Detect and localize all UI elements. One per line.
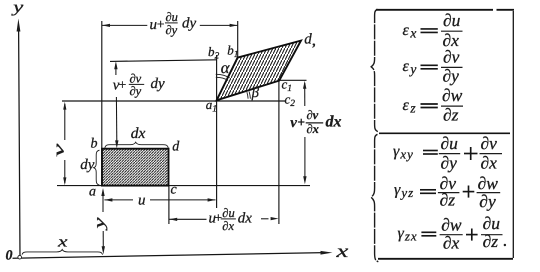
svg-text:∂y: ∂y <box>441 153 458 173</box>
svg-text:εy: εy <box>403 58 417 77</box>
svg-text:∂v: ∂v <box>443 46 460 66</box>
svg-text:a: a <box>89 185 96 200</box>
wire V6 vertical below c <box>168 186 170 224</box>
svg-text:∂w: ∂w <box>441 214 462 234</box>
equation gamma_xy <box>393 133 502 173</box>
svg-text:∂w: ∂w <box>442 85 463 105</box>
svg-text:x: x <box>335 242 349 262</box>
svg-text:∂y: ∂y <box>166 23 178 37</box>
y axis arrowhead <box>17 19 21 32</box>
wire V3 vertical through a1,b2 <box>216 55 218 208</box>
equation eps_x <box>403 10 463 50</box>
equation gamma_yz <box>394 173 500 211</box>
origin circle <box>18 255 22 259</box>
svg-text:β: β <box>251 85 260 101</box>
angle alpha arc <box>216 74 230 80</box>
svg-text:γxy: γxy <box>393 143 414 162</box>
svg-text:α: α <box>221 58 230 77</box>
equation gamma_zx <box>398 213 508 253</box>
svg-text:dy: dy <box>182 16 197 32</box>
brace dy (left of rectangle) <box>94 150 100 185</box>
svg-text:∂v: ∂v <box>481 133 498 153</box>
wire V4 vertical through c1,c2 <box>278 80 280 224</box>
svg-text:.: . <box>503 234 507 250</box>
svg-text:dy: dy <box>151 76 166 92</box>
svg-text:γzx: γzx <box>398 225 418 244</box>
brace dx (above rectangle) <box>105 142 169 148</box>
svg-text:∂x: ∂x <box>222 219 234 233</box>
svg-text:d,: d, <box>304 32 316 49</box>
wire H2 horizontal through a1 <box>62 100 285 102</box>
svg-text:∂x: ∂x <box>481 153 498 173</box>
svg-text:∂u: ∂u <box>483 213 501 233</box>
svg-text:b: b <box>91 137 98 152</box>
svg-text:εz: εz <box>403 97 417 116</box>
svg-text:∂v: ∂v <box>307 108 319 122</box>
wire V5 vertical through b1 <box>237 21 239 58</box>
panel right border <box>512 11 514 258</box>
svg-text:c: c <box>171 183 178 198</box>
parallelogram a1 b1 d1 c1 hatched <box>217 41 301 101</box>
svg-text:+: + <box>118 77 127 92</box>
svg-text:∂y: ∂y <box>479 191 496 211</box>
equation eps_y <box>403 46 463 85</box>
dimension u+du/dx dx (y=219) <box>169 218 268 221</box>
label u+du/dy dy <box>150 10 197 37</box>
angle beta arc <box>247 92 251 99</box>
svg-text:∂u: ∂u <box>222 206 234 220</box>
brace left top group <box>371 9 378 131</box>
equation eps_z <box>403 85 464 125</box>
wire H3 horizontal through a,c <box>57 185 310 187</box>
dimension v (vertical, x=64.8) <box>64 104 66 183</box>
panel top border <box>376 9 493 11</box>
svg-text:∂z: ∂z <box>443 105 459 125</box>
dimension D2 v+dv/dy dy (vertical, x=116) <box>115 64 118 141</box>
svg-text:y: y <box>10 0 24 16</box>
dimension v+dv/dx dx (vertical x=305) <box>304 83 306 181</box>
svg-text:dx: dx <box>238 211 253 227</box>
wire H4 short line at c1 <box>279 79 307 81</box>
svg-text:∂u: ∂u <box>443 10 461 30</box>
label v+dv/dy dy <box>113 71 165 98</box>
rectangle abcd hatched <box>102 149 169 186</box>
svg-text:∂x: ∂x <box>307 122 319 136</box>
panel divider <box>379 132 510 134</box>
svg-text:dx: dx <box>131 125 146 142</box>
wire V1 vertical through a,b <box>101 21 103 186</box>
svg-text:∂y: ∂y <box>443 66 460 86</box>
wire H1 horizontal through b2 <box>110 60 217 62</box>
label u+du/dx dx <box>209 206 253 233</box>
label v+dv/dx dx (bold) <box>290 108 341 136</box>
svg-text:+: + <box>297 114 305 129</box>
panel bottom border <box>378 258 513 260</box>
dimension u (y=200) <box>104 199 215 201</box>
svg-text:+: + <box>156 16 165 31</box>
dimension y (vertical at x=103) <box>102 190 104 251</box>
x axis <box>13 253 324 259</box>
svg-text:∂w: ∂w <box>478 173 499 193</box>
svg-text:dy: dy <box>80 157 95 173</box>
svg-text:u: u <box>138 193 146 209</box>
svg-text:dx: dx <box>326 114 342 131</box>
brace x (above x axis) <box>22 250 103 255</box>
svg-text:x: x <box>57 233 68 250</box>
dimension D1 u+du/dy dy (top) <box>102 24 238 26</box>
svg-text:∂u: ∂u <box>166 10 178 24</box>
svg-text:εx: εx <box>403 22 417 41</box>
svg-text:∂u: ∂u <box>441 133 459 153</box>
y axis <box>19 29 20 258</box>
x axis arrowhead <box>321 251 333 255</box>
svg-text:∂z: ∂z <box>440 189 456 209</box>
svg-text:∂x: ∂x <box>443 232 460 252</box>
svg-text:γyz: γyz <box>394 182 414 201</box>
svg-text:∂z: ∂z <box>483 231 499 251</box>
svg-text:d: d <box>172 139 180 154</box>
brace left bottom group <box>371 134 378 261</box>
svg-text:v: v <box>52 143 68 157</box>
svg-text:∂y: ∂y <box>130 84 142 98</box>
svg-text:0: 0 <box>6 248 13 263</box>
